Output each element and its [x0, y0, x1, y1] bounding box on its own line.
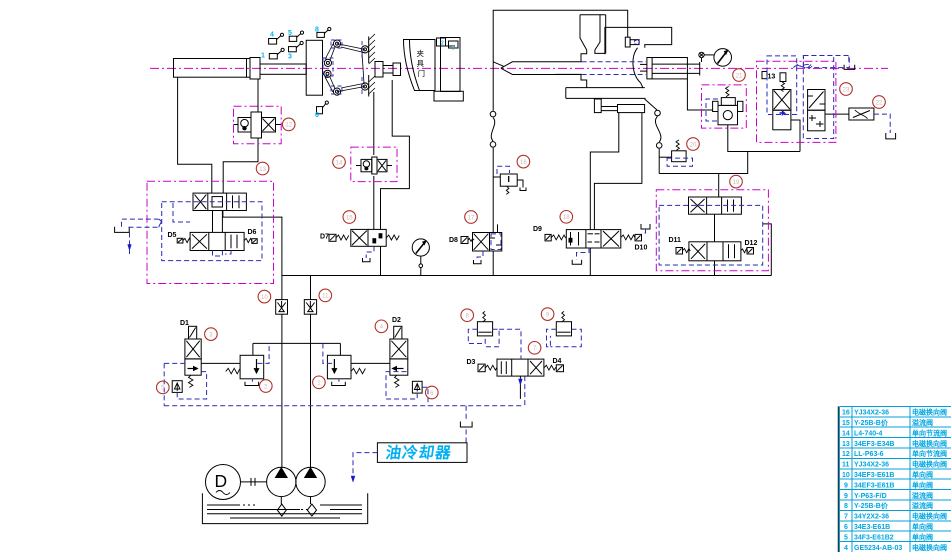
svg-text:门: 门	[418, 69, 426, 78]
svg-text:电磁换向阀: 电磁换向阀	[912, 460, 947, 469]
svg-text:13: 13	[259, 167, 266, 173]
svg-text:15: 15	[842, 420, 850, 427]
svg-text:1: 1	[261, 53, 265, 60]
svg-text:D3: D3	[467, 359, 476, 366]
svg-text:13: 13	[768, 74, 776, 81]
svg-text:9: 9	[546, 312, 550, 318]
svg-text:8: 8	[466, 314, 470, 320]
svg-text:D7: D7	[320, 234, 329, 241]
svg-text:L4-740-4: L4-740-4	[854, 430, 883, 437]
svg-text:13: 13	[842, 441, 850, 448]
svg-text:6: 6	[315, 112, 319, 119]
svg-text:电磁换向阀: 电磁换向阀	[912, 439, 947, 448]
svg-text:YJ34X2-36: YJ34X2-36	[854, 462, 889, 469]
svg-text:5: 5	[844, 534, 848, 541]
svg-text:10: 10	[842, 472, 850, 479]
svg-text:溢流阀: 溢流阀	[912, 491, 933, 500]
svg-text:14: 14	[842, 430, 850, 437]
svg-text:11: 11	[322, 294, 329, 300]
svg-text:D11: D11	[669, 237, 682, 244]
svg-text:9: 9	[844, 493, 848, 500]
svg-text:Y-P63-F/D: Y-P63-F/D	[854, 493, 887, 500]
svg-text:1: 1	[317, 381, 321, 387]
svg-text:12: 12	[285, 123, 292, 129]
svg-text:单向阀: 单向阀	[912, 522, 933, 531]
svg-text:D9: D9	[533, 226, 542, 233]
svg-text:D6: D6	[248, 229, 257, 236]
svg-text:D2: D2	[392, 317, 401, 324]
svg-text:D1: D1	[180, 320, 189, 327]
svg-text:YJ34X2-36: YJ34X2-36	[854, 410, 889, 417]
svg-text:15: 15	[346, 215, 353, 221]
svg-text:4: 4	[380, 325, 384, 331]
svg-text:18: 18	[563, 215, 570, 221]
svg-text:3: 3	[209, 332, 213, 338]
svg-text:34EF3-E61B: 34EF3-E61B	[854, 482, 894, 489]
svg-text:4: 4	[844, 545, 848, 552]
svg-text:6: 6	[430, 391, 434, 397]
svg-text:16: 16	[520, 160, 527, 166]
svg-text:单向阀: 单向阀	[912, 470, 933, 479]
svg-text:D4: D4	[553, 358, 562, 365]
svg-text:具: 具	[417, 59, 425, 68]
svg-text:单向阀: 单向阀	[912, 480, 933, 489]
svg-text:10: 10	[261, 295, 268, 301]
svg-text:21: 21	[736, 73, 743, 79]
svg-text:溢流阀: 溢流阀	[912, 418, 933, 427]
svg-text:GE5234-AB-03: GE5234-AB-03	[854, 545, 902, 552]
svg-text:9: 9	[844, 482, 848, 489]
svg-text:2: 2	[264, 384, 268, 390]
svg-text:LL-P63-6: LL-P63-6	[854, 451, 884, 458]
svg-text:22: 22	[876, 100, 883, 106]
svg-text:11: 11	[842, 462, 850, 469]
svg-text:23: 23	[843, 87, 850, 93]
svg-text:7: 7	[533, 346, 537, 352]
svg-text:4: 4	[270, 32, 274, 39]
svg-text:夹: 夹	[417, 48, 425, 58]
svg-text:34E3-E61B: 34E3-E61B	[854, 524, 890, 531]
svg-text:单向阀: 单向阀	[912, 532, 933, 541]
svg-text:16: 16	[842, 410, 850, 417]
svg-text:14: 14	[336, 160, 343, 166]
svg-text:3: 3	[288, 54, 292, 61]
svg-text:D: D	[215, 471, 228, 491]
svg-text:溢流阀: 溢流阀	[912, 501, 933, 510]
svg-text:D10: D10	[635, 245, 648, 252]
svg-text:34Y2X2-36: 34Y2X2-36	[854, 514, 889, 521]
svg-text:12: 12	[842, 451, 850, 458]
svg-text:油冷却器: 油冷却器	[384, 443, 453, 462]
svg-text:电磁换向阀: 电磁换向阀	[912, 543, 947, 552]
svg-text:单向节流阀: 单向节流阀	[912, 449, 947, 458]
svg-text:Y-25B-B价: Y-25B-B价	[854, 419, 889, 427]
svg-text:7: 7	[844, 514, 848, 521]
svg-text:8: 8	[844, 503, 848, 510]
svg-text:单向节流阀: 单向节流阀	[912, 428, 947, 437]
svg-text:17: 17	[468, 215, 475, 221]
svg-text:19: 19	[733, 180, 740, 186]
svg-text:Y-25B-B价: Y-25B-B价	[854, 502, 889, 510]
svg-text:8: 8	[315, 27, 319, 34]
svg-text:6: 6	[844, 524, 848, 531]
svg-text:20: 20	[690, 142, 697, 148]
svg-text:D5: D5	[168, 232, 177, 239]
svg-text:电磁换向阀: 电磁换向阀	[912, 408, 947, 417]
svg-text:7: 7	[452, 46, 455, 52]
svg-text:34EF3-E34B: 34EF3-E34B	[854, 441, 894, 448]
svg-text:34F3-E61B2: 34F3-E61B2	[854, 534, 894, 541]
svg-text:D12: D12	[745, 240, 758, 247]
svg-text:5: 5	[288, 30, 292, 37]
svg-text:2: 2	[441, 41, 444, 47]
svg-text:D8: D8	[449, 237, 458, 244]
svg-text:34EF3-E61B: 34EF3-E61B	[854, 472, 894, 479]
svg-text:电磁换向阀: 电磁换向阀	[912, 512, 947, 521]
